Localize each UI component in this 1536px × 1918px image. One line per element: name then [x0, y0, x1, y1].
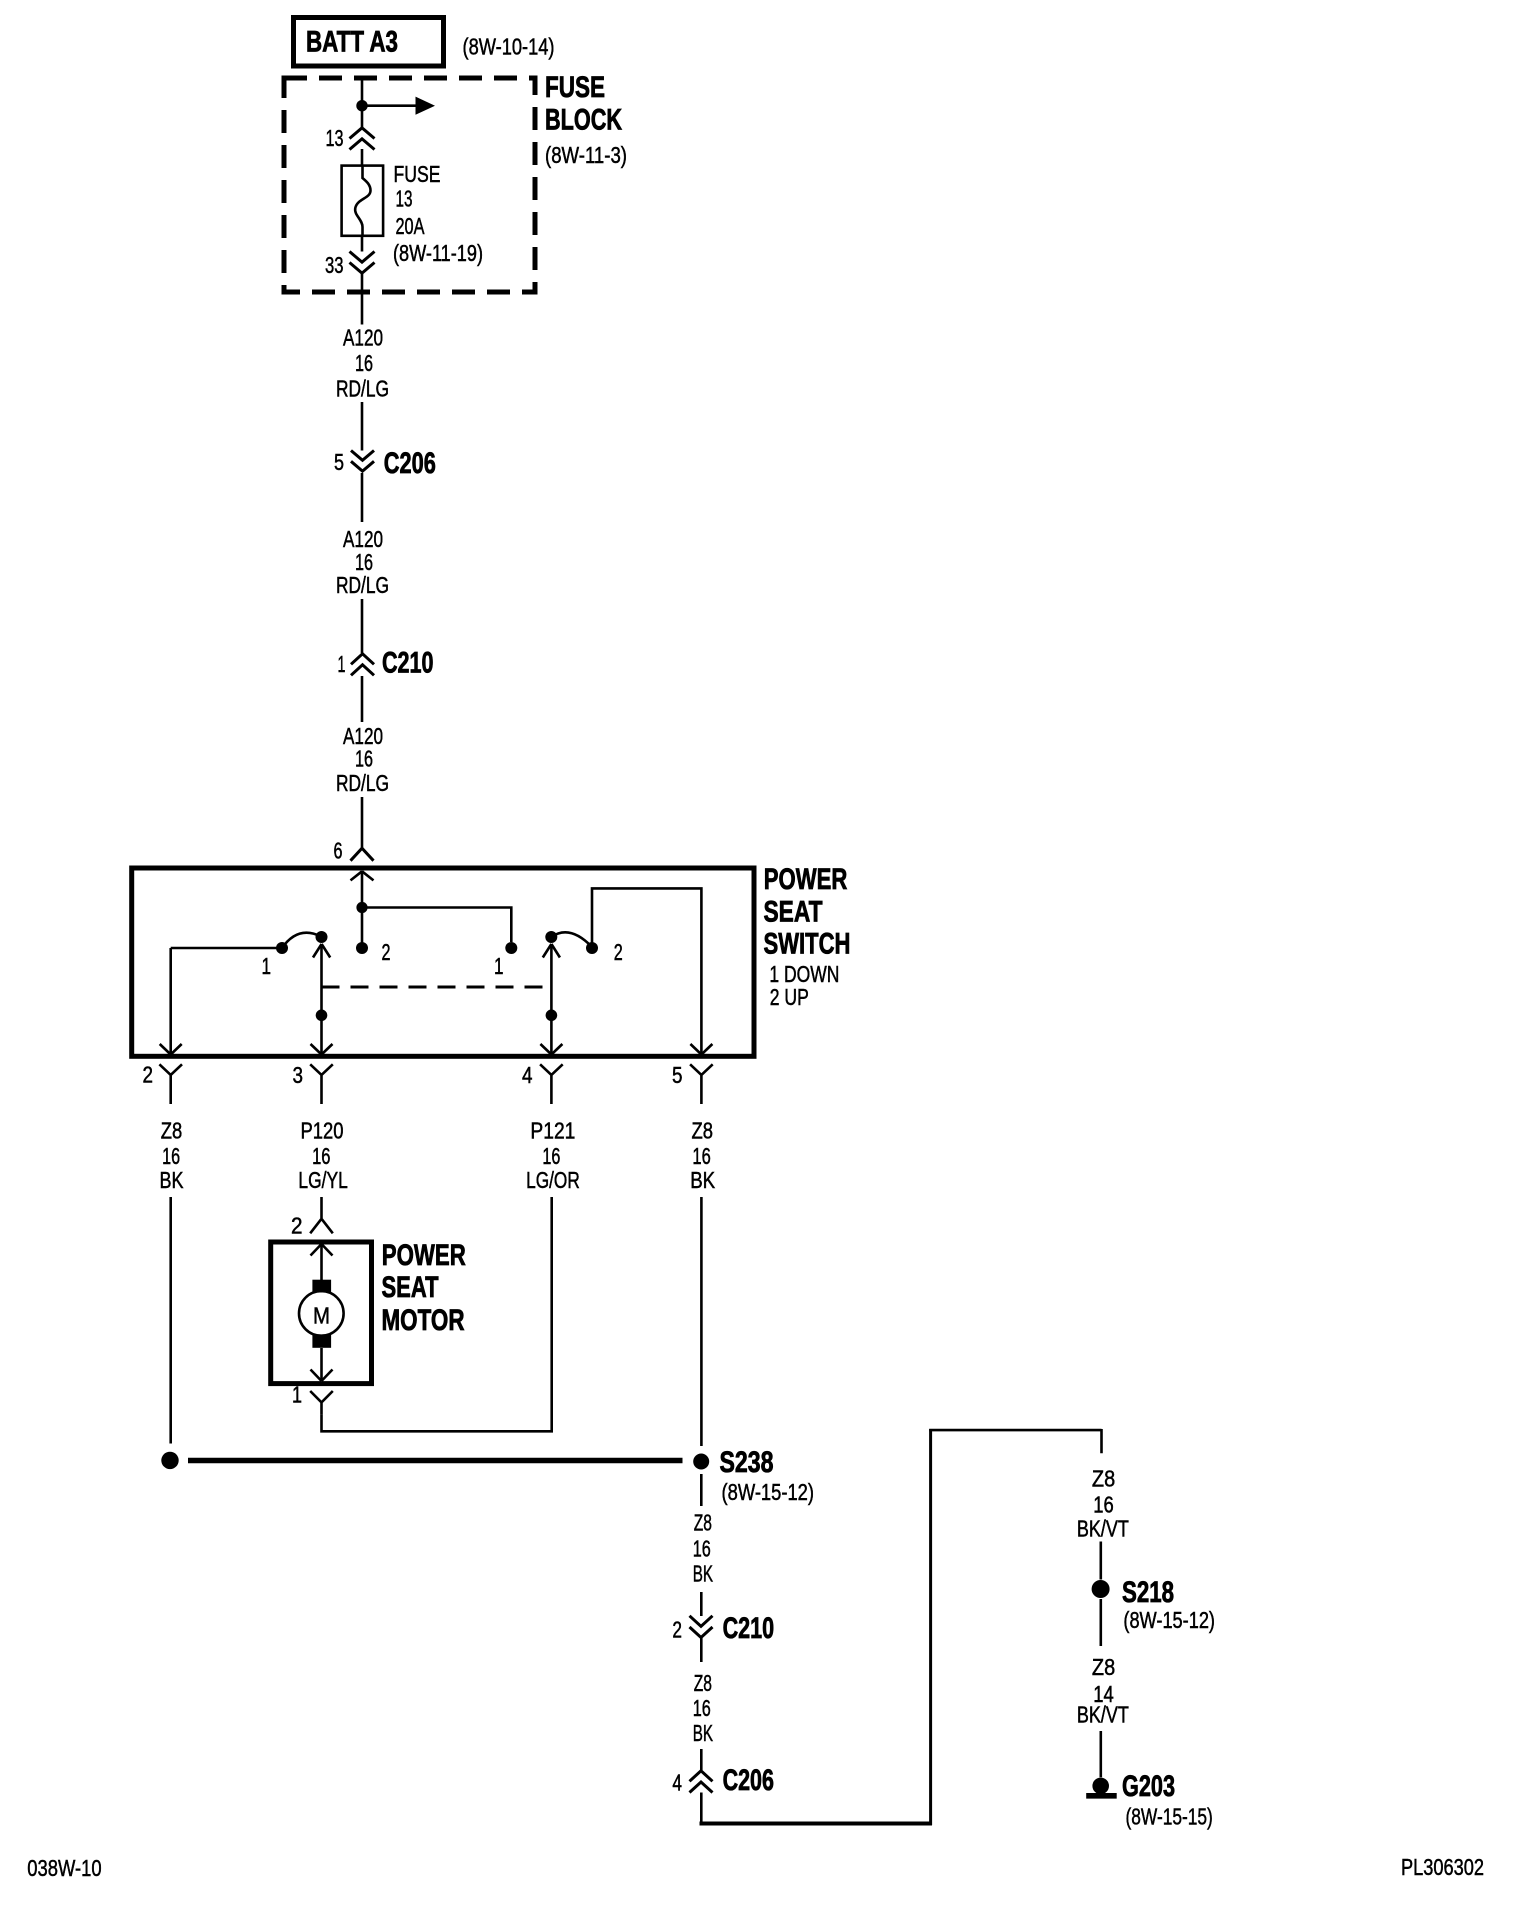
power source BATT A3 — [294, 18, 444, 67]
ground G203 symbol — [1086, 1778, 1117, 1796]
wire: battery feed into fuse block — [361, 76, 364, 128]
svg-text:SWITCH: SWITCH — [764, 928, 851, 961]
mechanical link (dashed) between wipers — [322, 986, 552, 989]
wire label A120 16 RD/LG (segment 2) — [336, 526, 389, 598]
wire below C210 — [700, 1638, 703, 1662]
power seat motor labels — [382, 1239, 467, 1337]
wire label A120 16 RD/LG (segment 1) — [336, 325, 389, 402]
svg-text:BK: BK — [693, 1561, 714, 1587]
connector pin 1 (power seat motor) — [292, 1382, 333, 1415]
ground G203 labels — [1122, 1770, 1213, 1830]
svg-text:PL306302: PL306302 — [1401, 1854, 1484, 1880]
wire below S238 — [700, 1474, 703, 1506]
left switch contact 2 (dot) — [356, 939, 391, 965]
svg-text:BATT A3: BATT A3 — [306, 26, 398, 59]
left switch wiper arrow and pin 3 leg — [313, 944, 330, 1053]
splice end dot (left) — [161, 1452, 178, 1469]
wire A120 segment 1 — [361, 402, 364, 451]
splice S238 labels — [720, 1446, 815, 1505]
wire to S218 — [1100, 1542, 1103, 1580]
fuse block enclosure (dashed) — [284, 78, 535, 292]
wire A120 segment 2 — [361, 473, 364, 522]
wire: left switch contact 1 to pin 2 leg — [171, 947, 277, 950]
wire: pin 6 feed inside switch (with arrow) — [351, 871, 374, 902]
right switch contact 1 (dot) — [494, 942, 517, 979]
connector pin 6 (power seat switch) — [334, 838, 374, 864]
wire: C206 to right ground branch (Z path) — [700, 1429, 1102, 1825]
splice S218 (dot) — [1092, 1580, 1110, 1598]
splice S238 (dot) — [693, 1454, 709, 1470]
svg-text:16: 16 — [693, 1536, 711, 1562]
svg-text:(8W-15-12): (8W-15-12) — [1123, 1607, 1215, 1633]
splice bus wire — [188, 1458, 683, 1464]
svg-text:SEAT: SEAT — [764, 895, 823, 928]
svg-text:33: 33 — [325, 252, 344, 278]
svg-text:1: 1 — [494, 953, 504, 979]
svg-text:S238: S238 — [720, 1446, 774, 1479]
svg-text:P121: P121 — [530, 1118, 575, 1144]
svg-text:BK/VT: BK/VT — [1077, 1702, 1129, 1728]
right switch wiper pivot (dot) and blade arc — [545, 931, 592, 947]
svg-text:13: 13 — [396, 186, 413, 212]
svg-text:RD/LG: RD/LG — [336, 770, 389, 796]
svg-text:Z8: Z8 — [694, 1670, 712, 1696]
wire: fuse output leaving fuse block — [361, 236, 364, 325]
power seat motor box — [271, 1242, 372, 1384]
svg-text:G203: G203 — [1122, 1770, 1175, 1803]
svg-text:Z8: Z8 — [161, 1118, 183, 1144]
svg-text:16: 16 — [1093, 1492, 1114, 1518]
splice S218 labels — [1122, 1576, 1215, 1633]
svg-text:M: M — [313, 1303, 330, 1329]
svg-text:BK/VT: BK/VT — [1077, 1516, 1129, 1542]
svg-text:1: 1 — [262, 953, 272, 979]
fuse value label FUSE 13 20A (8W-11-19) — [393, 161, 483, 266]
svg-text:20A: 20A — [396, 213, 425, 239]
svg-text:1: 1 — [292, 1382, 302, 1408]
wire label P120 16 LG/YL (pin 3) — [298, 1118, 348, 1194]
svg-text:6: 6 — [334, 838, 343, 864]
svg-text:C210: C210 — [723, 1612, 775, 1645]
svg-text:16: 16 — [542, 1143, 560, 1169]
svg-text:3: 3 — [293, 1062, 304, 1088]
svg-text:BK: BK — [160, 1167, 185, 1193]
motor internal feed wire with arrow — [311, 1244, 333, 1280]
svg-text:16: 16 — [693, 1695, 711, 1721]
svg-text:SEAT: SEAT — [382, 1271, 439, 1304]
wire below S218 — [1100, 1599, 1103, 1646]
svg-text:4: 4 — [522, 1062, 533, 1088]
wire label P121 16 LG/OR (pin 4) — [526, 1118, 580, 1194]
svg-text:A120: A120 — [343, 325, 383, 351]
svg-text:16: 16 — [355, 350, 373, 376]
svg-text:POWER: POWER — [764, 863, 848, 896]
wire label Z8 16 BK/VT (right branch) — [1077, 1466, 1129, 1542]
svg-text:Z8: Z8 — [1092, 1654, 1115, 1680]
svg-text:16: 16 — [162, 1143, 180, 1169]
svg-text:MOTOR: MOTOR — [382, 1304, 465, 1337]
junction dot on pin 3 leg — [316, 1010, 328, 1022]
wire label Z8 16 BK (pin 2) — [160, 1118, 185, 1194]
junction dot on pin 4 leg — [546, 1010, 558, 1022]
svg-text:BK: BK — [693, 1720, 714, 1746]
svg-text:5: 5 — [672, 1062, 683, 1088]
connector pin 2 (switch, half connector) — [143, 1062, 183, 1105]
svg-text:038W-10: 038W-10 — [27, 1855, 101, 1881]
svg-text:16: 16 — [355, 746, 373, 772]
wire A120 segment 3 — [361, 599, 364, 653]
connector C206 pin 4 — [672, 1764, 773, 1797]
svg-text:2: 2 — [382, 939, 391, 965]
branch arrow to other circuits — [367, 97, 435, 115]
wire A120 segment 4 — [361, 676, 364, 722]
connector pin 2 (power seat motor) — [291, 1213, 333, 1239]
svg-text:FUSE: FUSE — [545, 71, 605, 104]
svg-text:2: 2 — [143, 1062, 154, 1088]
svg-text:RD/LG: RD/LG — [336, 376, 389, 402]
svg-text:16: 16 — [312, 1143, 330, 1169]
svg-text:(8W-11-3): (8W-11-3) — [545, 142, 627, 168]
wire to ground G203 — [1100, 1731, 1103, 1777]
junction node (switch common feed) — [356, 902, 367, 913]
svg-text:2 UP: 2 UP — [770, 984, 809, 1010]
fuse block labels FUSE BLOCK (8W-11-3) — [545, 71, 627, 168]
wire: motor pin 1 to switch pin 4 (P121) — [322, 1197, 552, 1431]
motor brush (bottom) — [312, 1335, 331, 1348]
svg-text:2: 2 — [291, 1213, 303, 1239]
wire P120 to motor pin 2 — [320, 1197, 323, 1218]
svg-text:P120: P120 — [301, 1118, 344, 1144]
svg-text:LG/OR: LG/OR — [526, 1167, 580, 1193]
arrowheads at switch bottom edge — [160, 1044, 713, 1055]
wire Z8 from pin 2 to splice S238 — [169, 1197, 172, 1444]
svg-text:C210: C210 — [382, 647, 434, 680]
wire label Z8 16 BK (below S238) — [693, 1510, 714, 1587]
junction dot (battery feed) — [356, 100, 367, 111]
connector C206 pin 5 — [334, 447, 436, 480]
wire label Z8 14 BK/VT — [1077, 1654, 1129, 1728]
wire label Z8 16 BK (below C210) — [693, 1670, 714, 1746]
svg-text:C206: C206 — [723, 1764, 774, 1797]
connector pin 33 (fuse block) — [325, 252, 375, 279]
wire label A120 16 RD/LG (segment 3) — [336, 723, 389, 796]
right switch wiper arrow and pin 4 leg — [543, 944, 560, 1053]
svg-text:S218: S218 — [1122, 1576, 1174, 1609]
wire: common feed to right switch contact 1 — [362, 908, 511, 943]
svg-text:16: 16 — [692, 1143, 710, 1169]
left switch wiper pivot (dot) and blade arc — [282, 931, 328, 948]
svg-text:13: 13 — [326, 125, 344, 151]
svg-text:2: 2 — [614, 939, 623, 965]
motor internal return wire with arrow — [311, 1348, 333, 1381]
wire: pin 2 leg inside switch — [169, 948, 172, 1053]
motor M1 (armature circle) — [299, 1291, 344, 1336]
svg-text:BK: BK — [690, 1167, 716, 1193]
svg-text:Z8: Z8 — [694, 1510, 712, 1536]
svg-text:BLOCK: BLOCK — [545, 104, 622, 137]
svg-text:1: 1 — [338, 651, 346, 677]
svg-text:Z8: Z8 — [692, 1118, 714, 1144]
connector pin 5 (switch, half connector) — [672, 1062, 713, 1104]
connector C210 pin 2 — [672, 1612, 774, 1645]
svg-text:4: 4 — [672, 1770, 682, 1796]
motor brush (top) — [312, 1280, 331, 1293]
connector pin 4 (switch, half connector) — [522, 1062, 563, 1104]
connector pin 3 (switch, half connector) — [293, 1062, 333, 1104]
wire: common feed to left switch contact 2 — [361, 913, 364, 943]
fuse 13 20A — [342, 166, 384, 236]
svg-text:POWER: POWER — [382, 1239, 466, 1272]
svg-text:FUSE: FUSE — [394, 161, 441, 187]
svg-text:(8W-10-14): (8W-10-14) — [463, 34, 555, 60]
connector C210 pin 1 — [338, 647, 434, 680]
svg-text:RD/LG: RD/LG — [336, 572, 389, 598]
svg-text:(8W-11-19): (8W-11-19) — [393, 240, 483, 266]
wire: right contact 2 to pin 5 leg — [592, 888, 701, 1053]
left switch contact 1 (dot) — [262, 942, 289, 979]
svg-text:(8W-15-15): (8W-15-15) — [1126, 1804, 1213, 1830]
wire: pin13 to fuse — [361, 149, 364, 166]
wire label Z8 16 BK (pin 5) — [690, 1118, 716, 1194]
svg-text:Z8: Z8 — [1092, 1466, 1115, 1492]
power seat switch labels — [764, 863, 851, 1010]
svg-text:2: 2 — [672, 1617, 682, 1643]
right switch contact 2 (dot) — [586, 939, 623, 965]
wire Z8 from pin 5 to splice S238 — [700, 1197, 703, 1446]
connector pin 13 (fuse block) — [326, 125, 375, 151]
wire A120 segment 5 — [361, 797, 364, 848]
svg-text:5: 5 — [334, 449, 344, 475]
svg-text:LG/YL: LG/YL — [298, 1167, 348, 1193]
svg-text:(8W-15-12): (8W-15-12) — [722, 1479, 815, 1505]
svg-text:C206: C206 — [384, 447, 436, 480]
wire to C206 — [700, 1749, 703, 1770]
wire to C210 — [700, 1592, 703, 1616]
link tick — [322, 986, 337, 989]
power seat switch box — [132, 868, 754, 1056]
